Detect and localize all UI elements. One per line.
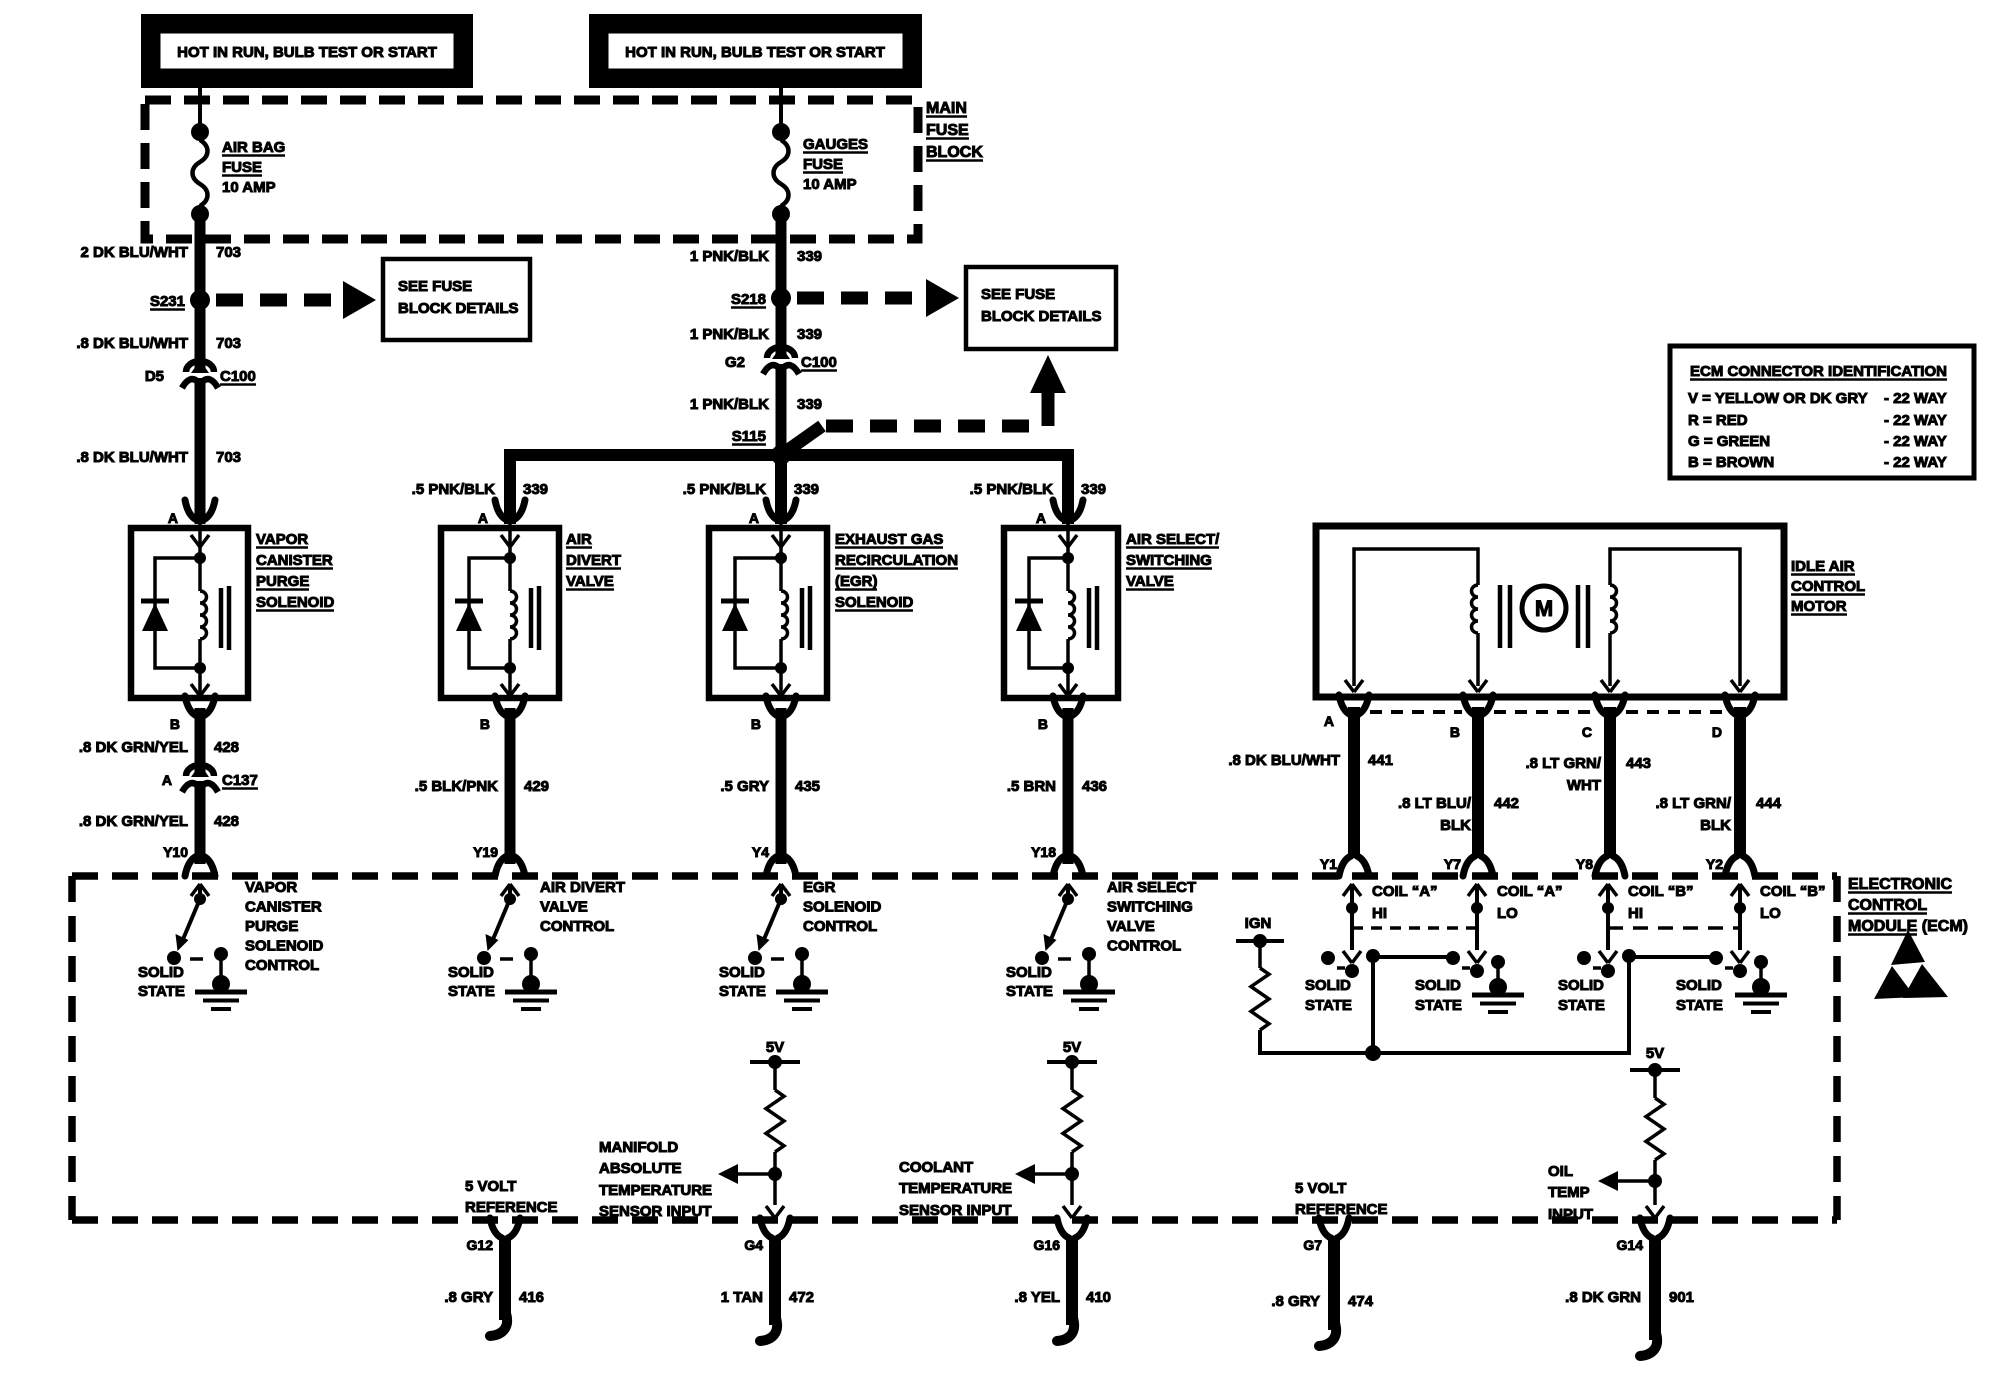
svg-text:.8 DK GRN/YEL: .8 DK GRN/YEL xyxy=(79,813,188,830)
svg-text:2 DK BLU/WHT: 2 DK BLU/WHT xyxy=(81,244,189,261)
svg-text:A: A xyxy=(1324,713,1334,729)
vapor canister purge solenoid: component box xyxy=(131,528,248,698)
air divert valve control switch: switch contact dash xyxy=(500,957,513,961)
svg-text:429: 429 xyxy=(524,778,549,795)
svg-text:WHT: WHT xyxy=(1567,777,1601,794)
connector C100 cavity G2 xyxy=(772,346,790,359)
svg-text:S231: S231 xyxy=(150,293,185,310)
svg-text:HI: HI xyxy=(1372,905,1387,922)
svg-text:SWITCHING: SWITCHING xyxy=(1126,552,1212,569)
EGR solenoid: internal wire from pin A with arrow xyxy=(779,518,783,558)
svg-text:ELECTRONIC: ELECTRONIC xyxy=(1848,876,1952,893)
svg-text:.8 LT GRN/: .8 LT GRN/ xyxy=(1655,795,1731,812)
svg-text:5V: 5V xyxy=(766,1039,784,1056)
svg-text:CANISTER: CANISTER xyxy=(245,899,322,916)
wire 339 from S218 to connector C100 xyxy=(776,298,787,358)
svg-text:435: 435 xyxy=(795,778,820,795)
svg-text:A: A xyxy=(749,510,759,526)
svg-text:CANISTER: CANISTER xyxy=(256,552,333,569)
IAC motor M circle xyxy=(1522,586,1566,630)
dashed wire from S231 to fuse block details arrow xyxy=(216,294,338,307)
svg-text:G4: G4 xyxy=(744,1237,763,1253)
svg-text:D: D xyxy=(1712,724,1722,740)
svg-text:C: C xyxy=(1582,724,1592,740)
air select switching valve: component box xyxy=(1004,528,1118,698)
ECM pin Y7 xyxy=(1463,856,1475,876)
svg-text:STATE: STATE xyxy=(1558,997,1605,1014)
svg-text:STATE: STATE xyxy=(1415,997,1462,1014)
coil B HI driver: driver line with arrows xyxy=(1599,884,1608,896)
wire from power box 2 to GAUGES fuse xyxy=(779,86,783,132)
splice S115 xyxy=(771,445,791,465)
svg-text:STATE: STATE xyxy=(448,983,495,1000)
svg-text:INPUT: INPUT xyxy=(1548,1206,1593,1223)
svg-text:REFERENCE: REFERENCE xyxy=(465,1199,558,1216)
IAC connector pins A B C D xyxy=(1339,695,1351,715)
vapor canister purge solenoid control switch: switch contact and ground xyxy=(214,947,228,961)
svg-text:416: 416 xyxy=(519,1289,544,1306)
svg-text:LO: LO xyxy=(1760,905,1781,922)
oil temp input junction and arrow xyxy=(1653,1160,1657,1205)
svg-text:428: 428 xyxy=(214,739,239,756)
svg-text:.8 DK GRN: .8 DK GRN xyxy=(1565,1289,1641,1306)
svg-text:B: B xyxy=(170,716,180,732)
svg-text:BLK: BLK xyxy=(1440,817,1471,834)
svg-text:.8 DK GRN/YEL: .8 DK GRN/YEL xyxy=(79,739,188,756)
svg-text:VALVE: VALVE xyxy=(566,573,614,590)
EGR solenoid: pin B fork xyxy=(766,696,778,716)
svg-text:339: 339 xyxy=(797,396,822,413)
svg-text:ECM CONNECTOR IDENTIFICATION: ECM CONNECTOR IDENTIFICATION xyxy=(1690,363,1947,380)
svg-text:TEMPERATURE: TEMPERATURE xyxy=(899,1180,1012,1197)
wire 442 from IAC pin B to ECM pin Y7 xyxy=(1472,707,1484,858)
svg-text:AIR: AIR xyxy=(566,531,592,548)
svg-text:443: 443 xyxy=(1626,755,1651,772)
svg-text:AIR SELECT: AIR SELECT xyxy=(1107,879,1196,896)
svg-text:B: B xyxy=(1450,724,1460,740)
power feed box 2: HOT IN RUN, BULB TEST OR START (right) xyxy=(589,14,922,88)
svg-text:Y4: Y4 xyxy=(752,844,769,860)
svg-text:D5: D5 xyxy=(145,368,164,385)
svg-text:M: M xyxy=(1535,596,1553,621)
coolant sensor input junction and arrow xyxy=(1070,1152,1074,1205)
arrow into ECM pin G14 xyxy=(1646,1206,1655,1218)
svg-text:MAIN: MAIN xyxy=(926,100,967,117)
vapor canister purge solenoid: solenoid coil winding xyxy=(198,558,202,591)
svg-text:.8 DK BLU/WHT: .8 DK BLU/WHT xyxy=(76,449,188,466)
wire 339 from GAUGES fuse to splice S218 xyxy=(776,214,787,298)
wire 444 from IAC pin D to ECM pin Y2 xyxy=(1734,707,1746,858)
fuse F2 GAUGES FUSE 10 AMP xyxy=(774,140,789,206)
wire from IGN resistor to coil driver junctions xyxy=(1260,957,1629,1053)
vapor canister purge solenoid: internal wire from pin A with arrow xyxy=(198,518,202,558)
svg-text:CONTROL: CONTROL xyxy=(1107,938,1181,955)
IAC connector dashed face xyxy=(1370,710,1462,714)
air divert valve: coil core bars xyxy=(529,588,534,648)
svg-text:1 PNK/BLK: 1 PNK/BLK xyxy=(690,248,769,265)
svg-text:CONTROL: CONTROL xyxy=(540,918,614,935)
air divert valve control switch: switch contact and ground xyxy=(524,947,538,961)
svg-text:5 VOLT: 5 VOLT xyxy=(465,1178,516,1195)
svg-text:BLOCK DETAILS: BLOCK DETAILS xyxy=(398,300,519,317)
IAC motor winding A-B xyxy=(1354,549,1478,686)
svg-text:SEE FUSE: SEE FUSE xyxy=(981,286,1055,303)
svg-text:GAUGES: GAUGES xyxy=(803,136,868,153)
svg-text:TEMPERATURE: TEMPERATURE xyxy=(599,1182,712,1199)
dashed wire from S218 to fuse block details arrow xyxy=(797,292,921,305)
svg-text:703: 703 xyxy=(216,335,241,352)
wire 435 from EGR solenoid pin B to ECM pin Y4 xyxy=(776,708,787,864)
svg-text:SOLENOID: SOLENOID xyxy=(803,899,882,916)
svg-text:Y18: Y18 xyxy=(1031,844,1056,860)
svg-text:HOT IN RUN, BULB TEST OR START: HOT IN RUN, BULB TEST OR START xyxy=(625,44,885,61)
svg-text:.8 LT GRN/: .8 LT GRN/ xyxy=(1525,755,1601,772)
ECM pin G12 xyxy=(490,1218,502,1238)
svg-text:OIL: OIL xyxy=(1548,1163,1573,1180)
splice S218 xyxy=(771,288,791,308)
wire 339 from C100 to splice S115 xyxy=(776,364,787,455)
svg-text:703: 703 xyxy=(216,449,241,466)
svg-text:COIL “A”: COIL “A” xyxy=(1497,883,1563,900)
air select switching valve: pin B fork xyxy=(1053,696,1065,716)
svg-text:Y8: Y8 xyxy=(1576,856,1593,872)
svg-text:5V: 5V xyxy=(1646,1045,1664,1062)
svg-text:COIL “B”: COIL “B” xyxy=(1628,883,1694,900)
wire 472 from ECM pin G4 xyxy=(769,1236,781,1325)
ECM pin G16 xyxy=(1057,1218,1069,1238)
svg-text:442: 442 xyxy=(1494,795,1519,812)
svg-text:.8 DK BLU/WHT: .8 DK BLU/WHT xyxy=(1228,752,1340,769)
svg-text:.8 GRY: .8 GRY xyxy=(1271,1293,1320,1310)
svg-text:.5 PNK/BLK: .5 PNK/BLK xyxy=(970,481,1054,498)
svg-text:.8 LT BLU/: .8 LT BLU/ xyxy=(1398,795,1472,812)
note box SEE FUSE BLOCK DETAILS (right) xyxy=(966,267,1116,349)
svg-text:A: A xyxy=(478,510,488,526)
wire from coil B HI output to coil B LO contact xyxy=(1629,955,1715,959)
svg-text:339: 339 xyxy=(797,326,822,343)
dashed wire from S115 up to fuse block details arrow xyxy=(781,426,822,455)
splice S231 xyxy=(190,290,210,310)
svg-text:V = YELLOW OR DK GRY: V = YELLOW OR DK GRY xyxy=(1688,390,1868,407)
idle air control motor: component box xyxy=(1316,526,1784,697)
svg-text:VALVE: VALVE xyxy=(1126,573,1174,590)
vapor canister purge solenoid: flyback diode branch xyxy=(155,558,200,668)
coil A HI driver: output junction xyxy=(1366,949,1380,963)
svg-text:IGN: IGN xyxy=(1245,915,1272,932)
wire 428 from vapor solenoid pin B to connector C137 xyxy=(195,708,206,776)
svg-text:339: 339 xyxy=(1081,481,1106,498)
svg-text:RECIRCULATION: RECIRCULATION xyxy=(835,552,958,569)
main fuse block dashed outline xyxy=(145,100,918,239)
svg-text:1 PNK/BLK: 1 PNK/BLK xyxy=(690,396,769,413)
vapor canister purge solenoid control switch: solid state switch arm xyxy=(181,899,200,944)
svg-text:FUSE: FUSE xyxy=(222,159,262,176)
dashed link coil A HI to coil A LO xyxy=(1352,926,1477,930)
svg-text:SEE FUSE: SEE FUSE xyxy=(398,278,472,295)
vapor canister purge solenoid control switch: driver input arrow and junction xyxy=(191,884,200,896)
svg-text:C100: C100 xyxy=(220,368,256,385)
coil A LO driver: ground contact xyxy=(1491,955,1505,969)
air select switching valve: pin A fork xyxy=(1053,500,1065,520)
fuse F1 AIR BAG FUSE 10 AMP xyxy=(193,140,208,206)
svg-text:HI: HI xyxy=(1628,905,1643,922)
svg-text:.8 DK BLU/WHT: .8 DK BLU/WHT xyxy=(76,335,188,352)
svg-text:STATE: STATE xyxy=(138,983,185,1000)
svg-text:Y19: Y19 xyxy=(473,844,498,860)
air divert valve control switch: solid state switch arm xyxy=(491,899,510,944)
svg-text:SOLID: SOLID xyxy=(448,964,494,981)
power feed box 1: HOT IN RUN, BULB TEST OR START (left) xyxy=(141,14,473,88)
svg-text:G16: G16 xyxy=(1034,1237,1061,1253)
svg-text:COIL “B”: COIL “B” xyxy=(1760,883,1826,900)
IGN pullup resistor xyxy=(1258,941,1262,968)
svg-text:DIVERT: DIVERT xyxy=(566,552,621,569)
vapor canister purge solenoid: pin A fork xyxy=(185,500,197,520)
wire 703 from AIR BAG fuse to splice S231 xyxy=(195,214,206,300)
svg-text:SENSOR INPUT: SENSOR INPUT xyxy=(599,1203,712,1220)
air select switching valve control switch: switch contact and ground xyxy=(1082,947,1096,961)
svg-text:- 22 WAY: - 22 WAY xyxy=(1884,433,1947,450)
svg-text:G14: G14 xyxy=(1617,1237,1644,1253)
svg-text:SOLID: SOLID xyxy=(1305,977,1351,994)
coil A LO driver: left contact dot xyxy=(1446,951,1460,965)
EGR solenoid: internal wire to pin B with arrow xyxy=(775,662,787,674)
svg-text:AIR SELECT/: AIR SELECT/ xyxy=(1126,531,1220,548)
svg-text:EXHAUST GAS: EXHAUST GAS xyxy=(835,531,943,548)
svg-text:SOLID: SOLID xyxy=(1676,977,1722,994)
svg-text:REFERENCE: REFERENCE xyxy=(1295,1201,1388,1218)
svg-text:BLK: BLK xyxy=(1700,817,1731,834)
svg-text:SOLENOID: SOLENOID xyxy=(245,938,324,955)
air divert valve: pin A fork xyxy=(495,500,507,520)
svg-text:B: B xyxy=(1038,716,1048,732)
air divert valve control switch: driver input arrow and junction xyxy=(501,884,510,896)
coil B LO driver: ground contact xyxy=(1754,955,1768,969)
electronic control module (ECM) dashed outline xyxy=(72,872,1837,880)
svg-text:472: 472 xyxy=(789,1289,814,1306)
connector C137 cavity A xyxy=(191,764,209,777)
air select switching valve: flyback diode branch xyxy=(1029,558,1068,668)
svg-text:428: 428 xyxy=(214,813,239,830)
svg-text:CONTROL: CONTROL xyxy=(1848,897,1927,914)
svg-text:SOLENOID: SOLENOID xyxy=(256,594,335,611)
svg-text:- 22 WAY: - 22 WAY xyxy=(1884,390,1947,407)
svg-text:410: 410 xyxy=(1086,1289,1111,1306)
oil temp pullup resistor xyxy=(1653,1070,1657,1098)
ESD sensitive device symbol xyxy=(1891,930,1925,965)
vapor canister purge solenoid control switch: switch contact dash xyxy=(190,957,203,961)
svg-text:TEMP: TEMP xyxy=(1548,1184,1590,1201)
svg-text:STATE: STATE xyxy=(1006,983,1053,1000)
wire from coil A HI output to coil A LO contact xyxy=(1373,955,1452,959)
junction dot above GAUGES fuse xyxy=(772,123,790,141)
svg-text:SOLENOID: SOLENOID xyxy=(835,594,914,611)
svg-text:C100: C100 xyxy=(801,354,837,371)
junction dot above AIR BAG fuse xyxy=(191,123,209,141)
svg-text:CONTROL: CONTROL xyxy=(1791,578,1865,595)
coil B LO driver: driver line with arrows xyxy=(1731,884,1740,896)
air divert valve: flyback diode branch xyxy=(469,558,510,668)
wire from power box 1 to AIR BAG fuse xyxy=(198,86,202,132)
svg-text:IDLE AIR: IDLE AIR xyxy=(1791,558,1855,575)
svg-text:AIR DIVERT: AIR DIVERT xyxy=(540,879,625,896)
svg-text:5V: 5V xyxy=(1063,1039,1081,1056)
svg-text:.5 BLK/PNK: .5 BLK/PNK xyxy=(415,778,499,795)
EGR solenoid control switch: switch contact and ground xyxy=(795,947,809,961)
svg-text:.5 GRY: .5 GRY xyxy=(720,778,769,795)
coil A LO driver: driver line with arrows xyxy=(1468,884,1477,896)
svg-text:BLOCK: BLOCK xyxy=(926,144,983,161)
air select switching valve: internal wire from pin A with arrow xyxy=(1066,518,1070,558)
svg-text:SOLID: SOLID xyxy=(1558,977,1604,994)
air divert valve: component box xyxy=(441,528,559,698)
svg-text:436: 436 xyxy=(1082,778,1107,795)
svg-text:FUSE: FUSE xyxy=(803,156,843,173)
air divert valve: solenoid coil winding xyxy=(508,558,512,591)
svg-text:- 22 WAY: - 22 WAY xyxy=(1884,412,1947,429)
IAC motor core bars xyxy=(1498,585,1503,648)
air select switching valve control switch: switch contact dash xyxy=(1058,957,1071,961)
svg-text:LO: LO xyxy=(1497,905,1518,922)
svg-text:MOTOR: MOTOR xyxy=(1791,598,1847,615)
arrow into ECM pin G16 xyxy=(1063,1206,1072,1218)
svg-text:A: A xyxy=(1036,510,1046,526)
air select switching valve control switch: solid state switch arm xyxy=(1049,899,1068,944)
EGR solenoid control switch: solid state switch arm xyxy=(762,899,781,944)
EGR solenoid control switch: driver input arrow and junction xyxy=(772,884,781,896)
svg-text:SOLID: SOLID xyxy=(1415,977,1461,994)
air select switching valve: solenoid coil winding xyxy=(1066,558,1070,591)
svg-text:.5 BRN: .5 BRN xyxy=(1007,778,1056,795)
ECM pin Y1 xyxy=(1339,856,1351,876)
svg-text:STATE: STATE xyxy=(719,983,766,1000)
IAC internal arrows to pins xyxy=(1345,680,1354,692)
svg-text:R = RED: R = RED xyxy=(1688,412,1748,429)
svg-text:FUSE: FUSE xyxy=(926,122,969,139)
svg-text:.8 YEL: .8 YEL xyxy=(1014,1289,1060,1306)
svg-text:1 TAN: 1 TAN xyxy=(721,1289,763,1306)
svg-text:441: 441 xyxy=(1368,752,1393,769)
wire 428 from C137 to ECM pin Y10 xyxy=(195,781,206,864)
svg-text:C137: C137 xyxy=(222,772,258,789)
svg-text:BLOCK DETAILS: BLOCK DETAILS xyxy=(981,308,1102,325)
ECM pin Y8 xyxy=(1595,856,1607,876)
dashed link coil B HI to coil B LO xyxy=(1608,926,1740,930)
svg-text:VAPOR: VAPOR xyxy=(245,879,297,896)
svg-text:VAPOR: VAPOR xyxy=(256,531,308,548)
svg-text:339: 339 xyxy=(794,481,819,498)
arrow to SEE FUSE BLOCK DETAILS (right) xyxy=(926,279,959,317)
svg-text:SOLID: SOLID xyxy=(1006,964,1052,981)
svg-text:10 AMP: 10 AMP xyxy=(222,179,276,196)
arrow to SEE FUSE BLOCK DETAILS (left) xyxy=(343,281,376,319)
svg-text:- 22 WAY: - 22 WAY xyxy=(1884,454,1947,471)
svg-text:B = BROWN: B = BROWN xyxy=(1688,454,1774,471)
svg-text:EGR: EGR xyxy=(803,879,836,896)
ECM pin Y19 xyxy=(495,856,507,876)
svg-text:PURGE: PURGE xyxy=(245,918,298,935)
air divert valve: internal wire to pin B with arrow xyxy=(504,662,516,674)
note box SEE FUSE BLOCK DETAILS (left) xyxy=(383,259,530,340)
air divert valve: pin B fork xyxy=(495,696,507,716)
vapor canister purge solenoid: internal wire to pin B with arrow xyxy=(194,662,206,674)
coolant sensor pullup resistor xyxy=(1070,1062,1074,1090)
svg-text:STATE: STATE xyxy=(1676,997,1723,1014)
wire 429 from air divert valve pin B to ECM pin Y19 xyxy=(505,708,516,864)
svg-text:5 VOLT: 5 VOLT xyxy=(1295,1180,1346,1197)
wire 410 from ECM pin G16 xyxy=(1066,1236,1078,1325)
svg-text:COOLANT: COOLANT xyxy=(899,1159,973,1176)
wire 441 from IAC pin A to ECM pin Y1 xyxy=(1348,707,1360,858)
EGR solenoid: pin A fork xyxy=(766,500,778,520)
svg-text:Y7: Y7 xyxy=(1444,856,1461,872)
svg-text:901: 901 xyxy=(1669,1289,1694,1306)
air select switching valve: coil core bars xyxy=(1087,588,1092,648)
svg-text:STATE: STATE xyxy=(1305,997,1352,1014)
svg-text:1 PNK/BLK: 1 PNK/BLK xyxy=(690,326,769,343)
svg-text:CONTROL: CONTROL xyxy=(803,918,877,935)
wire 436 from air select valve pin B to ECM pin Y18 xyxy=(1063,708,1074,864)
wire 443 from IAC pin C to ECM pin Y8 xyxy=(1604,707,1616,858)
ECM pin Y10 xyxy=(185,856,197,876)
svg-text:VALVE: VALVE xyxy=(540,899,588,916)
air select switching valve: internal wire to pin B with arrow xyxy=(1062,662,1074,674)
EGR solenoid: solenoid coil winding xyxy=(779,558,783,591)
EGR solenoid: coil core bars xyxy=(800,588,805,648)
svg-text:G12: G12 xyxy=(467,1237,494,1253)
ECM pin Y4 xyxy=(766,856,778,876)
svg-text:339: 339 xyxy=(797,248,822,265)
junction dot below GAUGES fuse xyxy=(772,205,790,223)
connector C100 cavity D5 xyxy=(191,360,209,373)
svg-text:AIR BAG: AIR BAG xyxy=(222,139,285,156)
wire 416 from ECM pin G12 xyxy=(499,1236,511,1320)
ECM pin Y18 xyxy=(1053,856,1065,876)
svg-text:COIL “A”: COIL “A” xyxy=(1372,883,1438,900)
legend box ECM CONNECTOR IDENTIFICATION xyxy=(1670,346,1974,478)
svg-text:.8 GRY: .8 GRY xyxy=(444,1289,493,1306)
air divert valve: internal wire from pin A with arrow xyxy=(508,518,512,558)
wire 901 from ECM pin G14 xyxy=(1649,1236,1661,1340)
svg-text:ABSOLUTE: ABSOLUTE xyxy=(599,1160,682,1177)
svg-text:SOLID: SOLID xyxy=(138,964,184,981)
svg-text:B: B xyxy=(480,716,490,732)
svg-text:Y10: Y10 xyxy=(163,844,188,860)
svg-text:MANIFOLD: MANIFOLD xyxy=(599,1139,678,1156)
junction dot below AIR BAG fuse xyxy=(191,205,209,223)
EGR solenoid control switch: switch contact dash xyxy=(771,957,784,961)
svg-text:Y2: Y2 xyxy=(1706,856,1723,872)
svg-text:339: 339 xyxy=(523,481,548,498)
svg-text:CONTROL: CONTROL xyxy=(245,957,319,974)
svg-text:444: 444 xyxy=(1756,795,1782,812)
arrow up to SEE FUSE BLOCK DETAILS box xyxy=(1030,355,1066,393)
svg-text:HOT IN RUN, BULB TEST OR START: HOT IN RUN, BULB TEST OR START xyxy=(177,44,437,61)
coil A HI driver: left contact dot xyxy=(1321,951,1335,965)
svg-text:VALVE: VALVE xyxy=(1107,918,1155,935)
svg-text:.5 PNK/BLK: .5 PNK/BLK xyxy=(412,481,496,498)
coil B HI driver: left contact dot xyxy=(1577,951,1591,965)
ECM pin G4 xyxy=(760,1218,772,1238)
svg-text:A: A xyxy=(162,772,172,788)
svg-text:703: 703 xyxy=(216,244,241,261)
MAP sensor input junction and arrow xyxy=(773,1152,777,1205)
MAP sensor pullup resistor xyxy=(773,1062,777,1090)
svg-text:(EGR): (EGR) xyxy=(835,573,878,590)
svg-text:474: 474 xyxy=(1348,1293,1374,1310)
arrow into ECM pin G4 xyxy=(766,1206,775,1218)
svg-text:G = GREEN: G = GREEN xyxy=(1688,433,1770,450)
